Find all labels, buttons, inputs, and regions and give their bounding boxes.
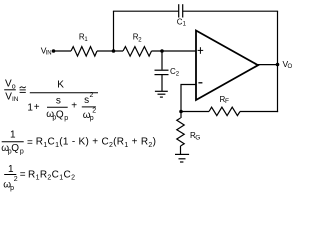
minus input symbol <box>198 82 202 84</box>
resistor RF <box>209 107 240 115</box>
label C2 <box>170 67 180 78</box>
svg-text:F: F <box>225 98 229 105</box>
svg-text:G: G <box>195 134 200 141</box>
equation 1: Vo/VIN transfer function <box>4 78 98 122</box>
label RG <box>190 131 200 141</box>
svg-text:p: p <box>10 185 14 192</box>
svg-text:p: p <box>20 149 24 156</box>
svg-text:+: + <box>34 102 40 113</box>
svg-text:p: p <box>64 115 68 122</box>
svg-text:IN: IN <box>12 96 19 103</box>
svg-text:o: o <box>12 83 16 90</box>
wire node B down to C2 <box>161 51 163 70</box>
svg-text:2: 2 <box>176 72 180 78</box>
wire top rail right of C1 <box>183 10 278 12</box>
label RF <box>220 95 230 105</box>
wire minus input to feedback node <box>181 85 196 112</box>
resistor R2 <box>123 47 152 57</box>
node B junction dot <box>160 49 164 53</box>
node A junction dot <box>112 49 116 53</box>
capacitor C1 <box>178 4 180 17</box>
svg-text:2: 2 <box>14 176 18 183</box>
svg-text:1: 1 <box>183 22 187 28</box>
svg-text:1: 1 <box>27 102 33 113</box>
ground for C2 <box>155 90 168 92</box>
svg-text:1: 1 <box>10 129 16 140</box>
label C1 <box>177 17 187 27</box>
op-amp U1 <box>196 31 258 101</box>
label VO <box>283 59 293 70</box>
wire feedback node to RF <box>181 111 209 113</box>
node VIN junction dot <box>52 49 56 53</box>
wire feedback node down to RG <box>180 112 182 119</box>
equation 2: 1/(wp Qp) <box>1 129 156 155</box>
svg-text:R1R2C1C2: R1R2C1C2 <box>28 170 75 182</box>
svg-text:2: 2 <box>92 108 96 115</box>
equation 3: 1/wp^2 <box>3 164 75 192</box>
svg-text:R1C1(1 - K) + C2(R1 + R2): R1C1(1 - K) + C2(R1 + R2) <box>36 137 156 149</box>
svg-text:IN: IN <box>46 51 52 57</box>
svg-text:O: O <box>288 64 293 70</box>
svg-text:1: 1 <box>8 164 14 175</box>
wire node A up to top rail <box>113 11 115 51</box>
wire right rail down to output node <box>277 11 279 64</box>
wire VIN node to R1 <box>54 50 72 52</box>
wire C2 to ground <box>161 75 163 91</box>
resistor R1 <box>71 47 97 57</box>
wire RF to right rail <box>240 111 278 113</box>
svg-text:=: = <box>20 170 26 181</box>
resistor RG <box>177 118 184 146</box>
svg-text:2: 2 <box>138 38 142 44</box>
svg-text:Q: Q <box>11 143 19 154</box>
svg-text:1: 1 <box>84 37 88 43</box>
feedback node junction dot <box>179 110 183 114</box>
capacitor C2 <box>155 69 169 71</box>
wire output node down right rail <box>277 65 279 113</box>
wire op-amp output to node VO <box>257 64 278 66</box>
wire top rail left of C1 <box>113 10 178 12</box>
label VIN <box>41 45 52 56</box>
svg-text:p: p <box>90 115 94 122</box>
node VO junction dot <box>276 63 280 67</box>
svg-text:+: + <box>71 101 77 112</box>
svg-text:K: K <box>57 79 64 90</box>
svg-text:s: s <box>84 95 89 106</box>
label R2 <box>133 33 143 44</box>
svg-text:Q: Q <box>56 110 64 121</box>
wire R1 to node A <box>97 50 123 52</box>
plus input symbol <box>198 49 204 51</box>
wire RG to ground <box>180 146 182 154</box>
svg-text:s: s <box>56 96 61 107</box>
wire R2 to op-amp plus input <box>152 50 196 52</box>
ground for RG <box>175 153 189 155</box>
svg-text:=: = <box>27 137 33 148</box>
label R1 <box>79 33 89 44</box>
svg-text:2: 2 <box>90 92 94 99</box>
